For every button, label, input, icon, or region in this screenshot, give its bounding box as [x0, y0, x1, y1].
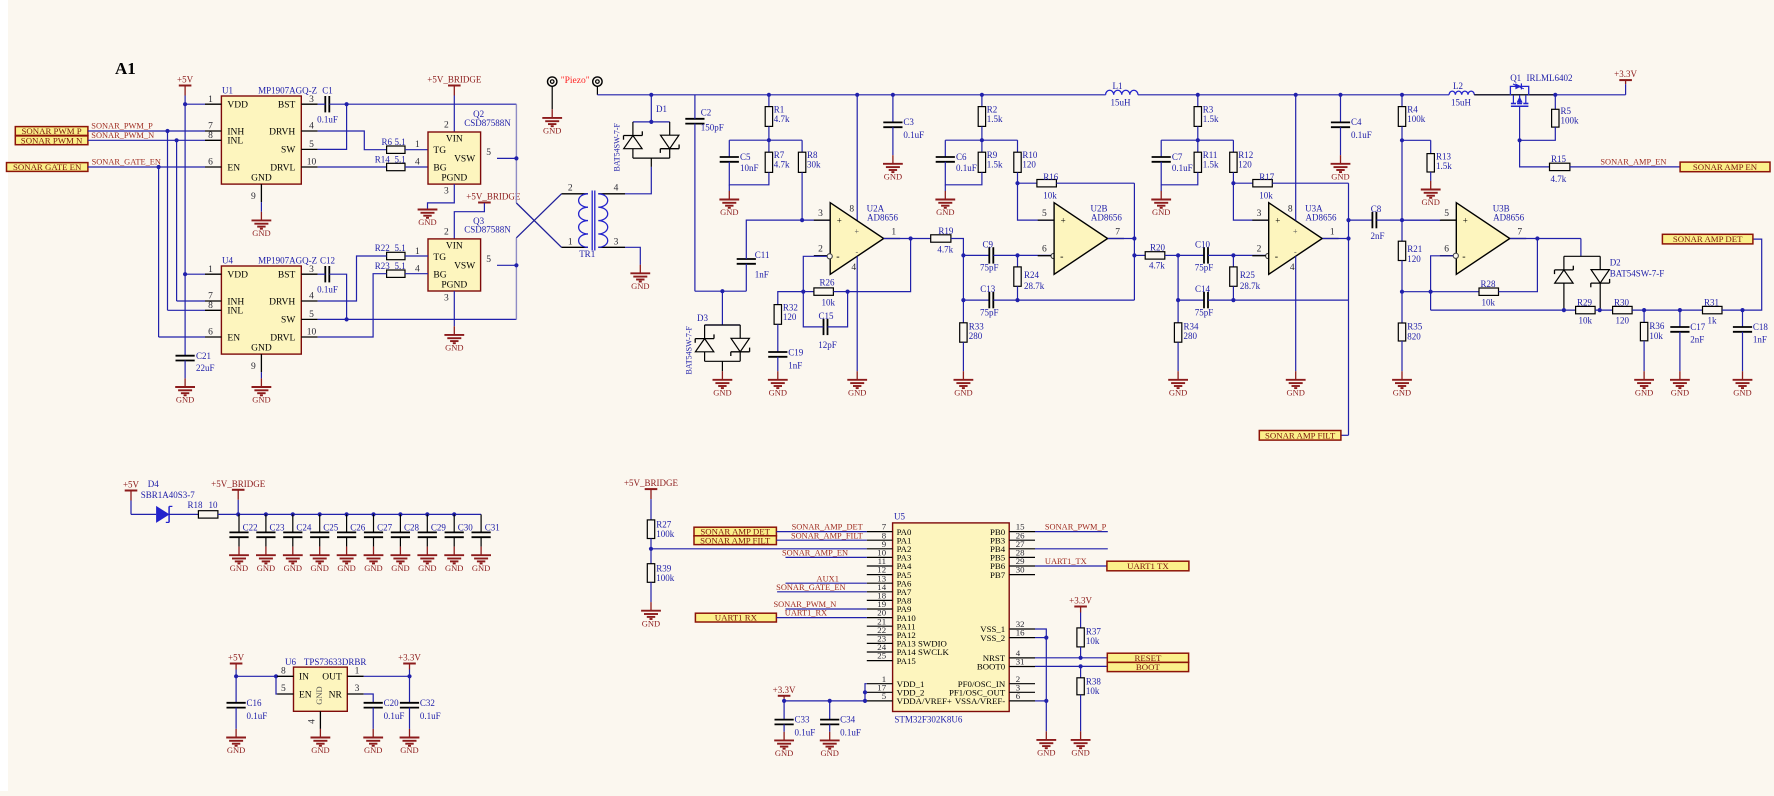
node -in/feedback [1429, 290, 1433, 294]
wire R13 to ground [1430, 172, 1432, 181]
ground for C24 [292, 547, 294, 556]
svg-text:R37: R37 [1086, 627, 1102, 637]
capacitor C23 [265, 514, 267, 532]
wire bias to C7 [1160, 140, 1162, 157]
pin 14 PA7 [867, 591, 893, 593]
svg-text:C20: C20 [384, 698, 400, 708]
ground for C16 [235, 729, 237, 738]
mosfet half-bridge Q3 CSD87588N [428, 239, 481, 291]
node rail/C28 [398, 512, 402, 516]
resistor R11 [1197, 140, 1199, 152]
svg-text:1.5k: 1.5k [1203, 159, 1219, 169]
svg-text:9: 9 [251, 192, 256, 202]
svg-text:PGND: PGND [441, 174, 467, 184]
svg-text:SONAR_PWM_P: SONAR_PWM_P [1045, 523, 1107, 532]
ground for C29 [426, 547, 428, 556]
resistor R23 [387, 270, 405, 277]
svg-text:+: + [1061, 216, 1066, 226]
port SONAR GATE EN [7, 163, 88, 172]
node +5V_BRIDGE / C22 [236, 512, 240, 516]
wire U3B -in to feedback [1431, 256, 1454, 310]
node SONAR_PWM_N branch [175, 138, 179, 142]
svg-text:4: 4 [851, 263, 856, 273]
pin 26 PB3 [1009, 539, 1035, 541]
svg-text:BG: BG [433, 164, 446, 174]
svg-text:R8: R8 [807, 150, 818, 160]
ground for C3 [892, 155, 894, 164]
wire to R27 [650, 499, 652, 520]
wire U4 GND pin 9 [260, 372, 262, 378]
svg-text:GND: GND [884, 171, 902, 181]
svg-text:2: 2 [1257, 245, 1262, 255]
node NRST/R37 [1079, 656, 1083, 660]
svg-text:28.7k: 28.7k [1240, 281, 1261, 291]
svg-text:+: + [837, 216, 842, 226]
svg-text:BOOT: BOOT [1136, 662, 1161, 672]
svg-text:PGND: PGND [441, 281, 467, 291]
svg-text:TG: TG [433, 146, 446, 156]
resistor R26 [803, 291, 814, 293]
wire U2A -in to feedback node [803, 256, 827, 291]
wire R17 to feedback vertical [1272, 182, 1348, 184]
resistor R19 [931, 235, 951, 242]
svg-text:10k: 10k [1259, 191, 1273, 201]
wire detector row [1431, 309, 1576, 311]
svg-text:BG: BG [433, 271, 446, 281]
svg-text:+5V: +5V [123, 480, 140, 490]
svg-text:1: 1 [208, 265, 213, 275]
svg-text:C23: C23 [270, 523, 286, 533]
wire U3B output [1510, 238, 1581, 240]
svg-text:GND: GND [176, 395, 194, 405]
wire R16 to feedback vertical [1056, 182, 1134, 184]
capacitor C32 [409, 676, 411, 703]
svg-text:10k: 10k [1482, 297, 1496, 307]
svg-text:5: 5 [486, 148, 491, 158]
node +5V / U1 VDD [183, 102, 187, 106]
svg-text:PB7: PB7 [990, 570, 1006, 580]
pin 12 PA5 [867, 574, 893, 576]
transformer TR1 [562, 184, 626, 260]
wire +5V vertical to U1/U4 VDD and C21 [184, 96, 186, 356]
capacitor C25 [319, 514, 321, 532]
port UART1 TX [1107, 561, 1189, 571]
svg-text:U6: U6 [285, 657, 296, 667]
node VDD_2 [863, 690, 867, 694]
wire U2A pin8 supply [856, 95, 858, 221]
svg-text:UART1 TX: UART1 TX [1127, 561, 1169, 571]
wire PA1 [776, 539, 866, 541]
svg-text:C10: C10 [1195, 239, 1211, 249]
svg-text:120: 120 [1407, 254, 1421, 264]
capacitor C27 [373, 514, 375, 532]
node IN/EN jumper [274, 674, 278, 678]
node bias R2 [980, 138, 984, 142]
svg-text:0.1uF: 0.1uF [317, 115, 338, 125]
svg-text:12pF: 12pF [818, 340, 837, 350]
wire R33 to ground [962, 342, 964, 371]
wire C15 left leg [803, 292, 823, 327]
svg-text:1.5k: 1.5k [1436, 161, 1452, 171]
svg-text:C11: C11 [755, 250, 770, 260]
capacitor C7 [1152, 156, 1171, 158]
svg-text:GND: GND [230, 563, 248, 573]
svg-text:INL: INL [227, 137, 243, 147]
wire C34 to ground [829, 724, 831, 731]
svg-text:GND: GND [642, 618, 660, 628]
svg-text:2: 2 [568, 184, 573, 194]
svg-text:4: 4 [415, 264, 420, 274]
wire R1 to bias node [768, 126, 770, 140]
resistor R10 [1017, 140, 1019, 152]
svg-text:3: 3 [355, 684, 360, 694]
svg-text:1: 1 [891, 227, 896, 237]
wire R35 to ground [1401, 341, 1403, 371]
node input C10 [1176, 253, 1180, 257]
wire PA0 [776, 531, 866, 533]
svg-text:SONAR_PWM_P: SONAR_PWM_P [91, 122, 153, 131]
wire D2 left leg down [1563, 297, 1565, 310]
svg-text:GND: GND [418, 563, 436, 573]
svg-text:GND: GND [418, 217, 436, 227]
wire C4 to ground [1340, 127, 1342, 155]
wire SONAR_PWM_N to U1 INL [88, 139, 205, 141]
svg-text:C22: C22 [243, 523, 258, 533]
capacitor C9 [963, 254, 989, 256]
node rail/C30 [452, 512, 456, 516]
capacitor C4 [1340, 95, 1342, 123]
svg-text:GND: GND [543, 126, 561, 136]
svg-text:VIN: VIN [446, 242, 463, 252]
wire R19 to stage2 input [951, 239, 964, 256]
svg-text:R25: R25 [1240, 270, 1256, 280]
inductor L2 [1449, 91, 1474, 95]
wire C10 to -in [1208, 254, 1233, 256]
resistor R2 [981, 95, 983, 107]
pin 6 VSSA/VREF- [1009, 700, 1035, 702]
node Q3 VSW [514, 263, 518, 267]
wire C29 to ground [426, 537, 428, 546]
svg-text:GND: GND [257, 563, 275, 573]
svg-text:9: 9 [251, 362, 256, 372]
wire to -in bubble [1018, 254, 1052, 256]
svg-text:10k: 10k [1043, 191, 1057, 201]
op-amp U3B AD8656 [1441, 219, 1456, 221]
port SONAR AMP FILT at U5 [694, 536, 776, 545]
node C8 row / R21 [1400, 218, 1404, 222]
wire D3 top rail [705, 324, 741, 326]
pin 25 PA15 [867, 660, 893, 662]
pin 18 PA8 [867, 599, 893, 601]
svg-text:1: 1 [568, 237, 573, 247]
svg-text:4.7k: 4.7k [937, 245, 953, 255]
resistor R30 [1613, 306, 1633, 313]
capacitor C28 [399, 514, 401, 532]
svg-text:C30: C30 [458, 523, 474, 533]
svg-text:5: 5 [281, 684, 286, 694]
wire diagonal node A to TR1 pin 1 [516, 203, 561, 247]
wire R12 down to +in [1233, 172, 1268, 220]
wire PA7 [777, 591, 867, 593]
wire C5 foot to ground [728, 185, 730, 191]
svg-text:3: 3 [309, 265, 314, 275]
svg-text:Q1: Q1 [1510, 73, 1521, 83]
capacitor C31 [480, 514, 482, 532]
svg-text:C24: C24 [296, 523, 312, 533]
wire U6 NR to C20 [364, 694, 374, 703]
ground for C19 [777, 371, 779, 380]
svg-text:GND: GND [1286, 387, 1304, 397]
svg-text:DRVH: DRVH [269, 127, 295, 137]
svg-text:UART1_TX: UART1_TX [1045, 557, 1087, 566]
svg-text:1nF: 1nF [1753, 335, 1767, 345]
ground for C17 [1679, 371, 1681, 380]
wire U4 DRVH to R22 [318, 256, 387, 301]
dual schottky diode D1 BAT54SW-7-F [633, 121, 670, 123]
svg-text:SONAR AMP EN: SONAR AMP EN [1693, 162, 1758, 172]
svg-text:+3.3V: +3.3V [398, 653, 421, 663]
wire diagonal node B to TR1 pin 2 [516, 194, 561, 238]
svg-text:10: 10 [307, 328, 317, 338]
svg-text:0.1uF: 0.1uF [1351, 130, 1372, 140]
svg-text:UART1_RX: UART1_RX [785, 609, 827, 618]
node BOOT0/R38 [1079, 664, 1083, 668]
wire R25 to C row [1232, 286, 1234, 300]
svg-text:2nF: 2nF [1690, 335, 1704, 345]
svg-text:10k: 10k [1649, 331, 1663, 341]
node C1/SW [345, 102, 349, 106]
ground for U4 pin 9 [260, 378, 262, 387]
svg-text:3: 3 [444, 294, 449, 304]
pin 19 PA9 [867, 608, 893, 610]
svg-text:R31: R31 [1704, 297, 1719, 307]
svg-text:GND: GND [820, 748, 838, 758]
ground for TR1 pin 3 [639, 265, 641, 274]
capacitor C30 [453, 514, 455, 532]
svg-text:1.5k: 1.5k [987, 159, 1003, 169]
wire PA3 [786, 556, 867, 558]
wire D3 top tap [721, 291, 723, 325]
svg-text:15uH: 15uH [1111, 97, 1132, 107]
wire PWM N vertical down to U4 INH [176, 140, 178, 301]
svg-text:SONAR_AMP_EN: SONAR_AMP_EN [1600, 157, 1666, 166]
resistor R29 [1576, 306, 1596, 313]
svg-text:30k: 30k [807, 159, 821, 169]
ground for U5 VSS [1045, 731, 1047, 740]
pin 28 PB5 [1009, 556, 1035, 558]
resistor R8 [801, 140, 803, 152]
svg-text:0.1uF: 0.1uF [1172, 163, 1193, 173]
dual schottky diode D3 BAT54SW-7-F [705, 324, 741, 326]
svg-text:U4: U4 [222, 255, 233, 265]
wire U2B output [1108, 238, 1135, 240]
svg-text:0.1uF: 0.1uF [384, 711, 405, 721]
svg-text:120: 120 [1022, 159, 1036, 169]
ground for R35 [1401, 371, 1403, 380]
svg-text:GND: GND [1421, 197, 1439, 207]
wire U4 SW row to transformer leg [318, 318, 517, 320]
svg-text:6: 6 [1016, 691, 1021, 701]
wire R36 to ground [1643, 341, 1645, 371]
svg-text:R27: R27 [656, 520, 672, 530]
pin 29 PB6 [1009, 565, 1035, 567]
wire C19 to ground [777, 357, 779, 371]
pin 9 PA2 [867, 548, 893, 550]
capacitor C16 [235, 676, 237, 703]
svg-text:GND: GND [1393, 387, 1411, 397]
wire U1 GND pin 9 [260, 202, 262, 212]
svg-text:SW: SW [281, 316, 295, 326]
wire C18 to ground [1742, 332, 1744, 371]
wire C13 to feedback vertical [993, 299, 1017, 301]
capacitor C1 [324, 96, 326, 112]
wire SONAR_GATE_EN to U1 EN [88, 166, 205, 168]
pin 15 PB0 [1009, 531, 1035, 533]
svg-text:6: 6 [1444, 245, 1449, 255]
wire bias row stage1 [729, 139, 802, 141]
wire R5 to gate node [1520, 127, 1556, 140]
svg-text:GND: GND [252, 395, 270, 405]
svg-text:+5V_BRIDGE: +5V_BRIDGE [466, 192, 521, 202]
capacitor C6 [936, 156, 955, 158]
svg-text:R9: R9 [987, 150, 998, 160]
svg-text:C26: C26 [350, 523, 366, 533]
node C row mid [1015, 298, 1019, 302]
capacitor C14 [1178, 299, 1204, 301]
mosfet half-bridge Q2 CSD87588N [428, 132, 481, 184]
svg-text:4.7k: 4.7k [774, 114, 790, 124]
svg-text:8: 8 [849, 205, 854, 215]
wire VSSA join [1035, 700, 1046, 702]
ground for U2A pin4 [856, 371, 858, 380]
wire U2A pin4 to ground [856, 256, 858, 371]
node C row left [1176, 298, 1180, 302]
svg-text:0.1uF: 0.1uF [317, 285, 338, 295]
node rail/R4 [1400, 93, 1404, 97]
wire U4 BST to C12 [318, 273, 326, 275]
wire C32 to ground [409, 708, 411, 729]
svg-text:-: - [1060, 252, 1063, 263]
svg-text:+3.3V: +3.3V [1614, 69, 1637, 79]
ground for R33 [962, 371, 964, 380]
svg-text:OUT: OUT [322, 673, 342, 683]
svg-text:TR1: TR1 [579, 249, 595, 259]
resistor R1 [768, 95, 770, 107]
wire to U4 INH [177, 300, 205, 302]
node R21/R35/feedback [1400, 290, 1404, 294]
wire input vertical [962, 255, 964, 322]
wire +3.3V to rail [1625, 84, 1627, 95]
svg-text:0.1uF: 0.1uF [903, 130, 924, 140]
wire +5V_BRIDGE to Q3 VIN [454, 203, 484, 239]
port SONAR AMP FILT [1259, 431, 1341, 441]
svg-text:3: 3 [444, 187, 449, 197]
svg-text:GND: GND [936, 207, 954, 217]
svg-text:1.5k: 1.5k [987, 114, 1003, 124]
op-amp U3A AD8656 [1269, 203, 1323, 275]
pin 7 PA0 [867, 531, 893, 533]
svg-text:2: 2 [818, 245, 823, 255]
pin 21 PA11 [867, 625, 893, 627]
ground for C34 [829, 732, 831, 741]
svg-text:STM32F302K8U6: STM32F302K8U6 [894, 715, 963, 725]
svg-text:U5: U5 [894, 512, 905, 522]
pin 31 BOOT0 [1009, 666, 1035, 668]
svg-text:GND: GND [1635, 387, 1653, 397]
node rail/C23 [264, 512, 268, 516]
wire C23 to ground [265, 537, 267, 546]
wire +5V to U6 IN [235, 670, 237, 677]
ground for U1 pin 9 [260, 212, 262, 221]
wire VSS_1/VSS_2 join [1035, 629, 1046, 731]
svg-text:R23: R23 [375, 261, 391, 271]
capacitor C5 [720, 156, 739, 158]
ground for C32 [409, 729, 411, 738]
svg-text:R4: R4 [1407, 104, 1418, 114]
wire R4 to node [1401, 126, 1403, 140]
svg-text:L2: L2 [1453, 81, 1463, 91]
resistor R22 [387, 252, 405, 259]
ground for R39 [650, 602, 652, 611]
ground for C23 [265, 547, 267, 556]
pin 1 VDD_1 [867, 683, 893, 685]
port UART1 RX [695, 613, 776, 622]
resistor R3 [1197, 95, 1199, 107]
wire R18 to +5V_BRIDGE node [218, 513, 238, 515]
wire feedback to output [848, 239, 911, 292]
wire R4 node down to C8 row [1401, 140, 1403, 220]
svg-text:DRVL: DRVL [270, 333, 295, 343]
svg-text:DRVL: DRVL [270, 163, 295, 173]
node feedback stage1 right [846, 290, 850, 294]
svg-text:AD8656: AD8656 [1091, 212, 1122, 222]
svg-text:4.7k: 4.7k [1149, 261, 1165, 271]
ground for piezo pad 1 [551, 109, 553, 118]
svg-text:C17: C17 [1690, 322, 1706, 332]
resistor R39 [647, 564, 654, 583]
capacitor C2 [685, 118, 704, 120]
wire R32 to C19 [777, 324, 779, 352]
wire U3A pin4 to ground [1295, 256, 1297, 371]
resistor R21 [1401, 220, 1403, 241]
svg-text:C29: C29 [431, 523, 447, 533]
svg-text:GND: GND [1331, 171, 1349, 181]
svg-text:R21: R21 [1407, 244, 1422, 254]
wire C15 right leg [828, 292, 848, 327]
wire C1 to SW node rail [329, 103, 516, 105]
node R12/R17 [1231, 181, 1235, 185]
ground for C22 [238, 547, 240, 556]
capacitor C18 [1742, 310, 1744, 327]
pin 23 PA13 [867, 642, 893, 644]
wire U6 OUT to +3.3V [364, 675, 410, 677]
svg-text:120: 120 [1238, 159, 1252, 169]
svg-text:R19: R19 [938, 226, 954, 236]
node U3B output [1535, 236, 1539, 240]
diode D4 SBR1A40S3-7 [157, 507, 169, 522]
ground for D3 [721, 371, 723, 380]
svg-text:15uH: 15uH [1451, 98, 1472, 108]
svg-text:C3: C3 [903, 117, 914, 127]
svg-text:1nF: 1nF [755, 269, 769, 279]
capacitor C3 [892, 95, 894, 123]
wire U1 BST to C1 [318, 103, 326, 105]
ground for C28 [399, 547, 401, 556]
svg-text:GND: GND [251, 344, 272, 354]
node R10/R16 [1015, 181, 1019, 185]
resistor R27 [647, 520, 654, 539]
svg-text:10: 10 [209, 500, 219, 510]
